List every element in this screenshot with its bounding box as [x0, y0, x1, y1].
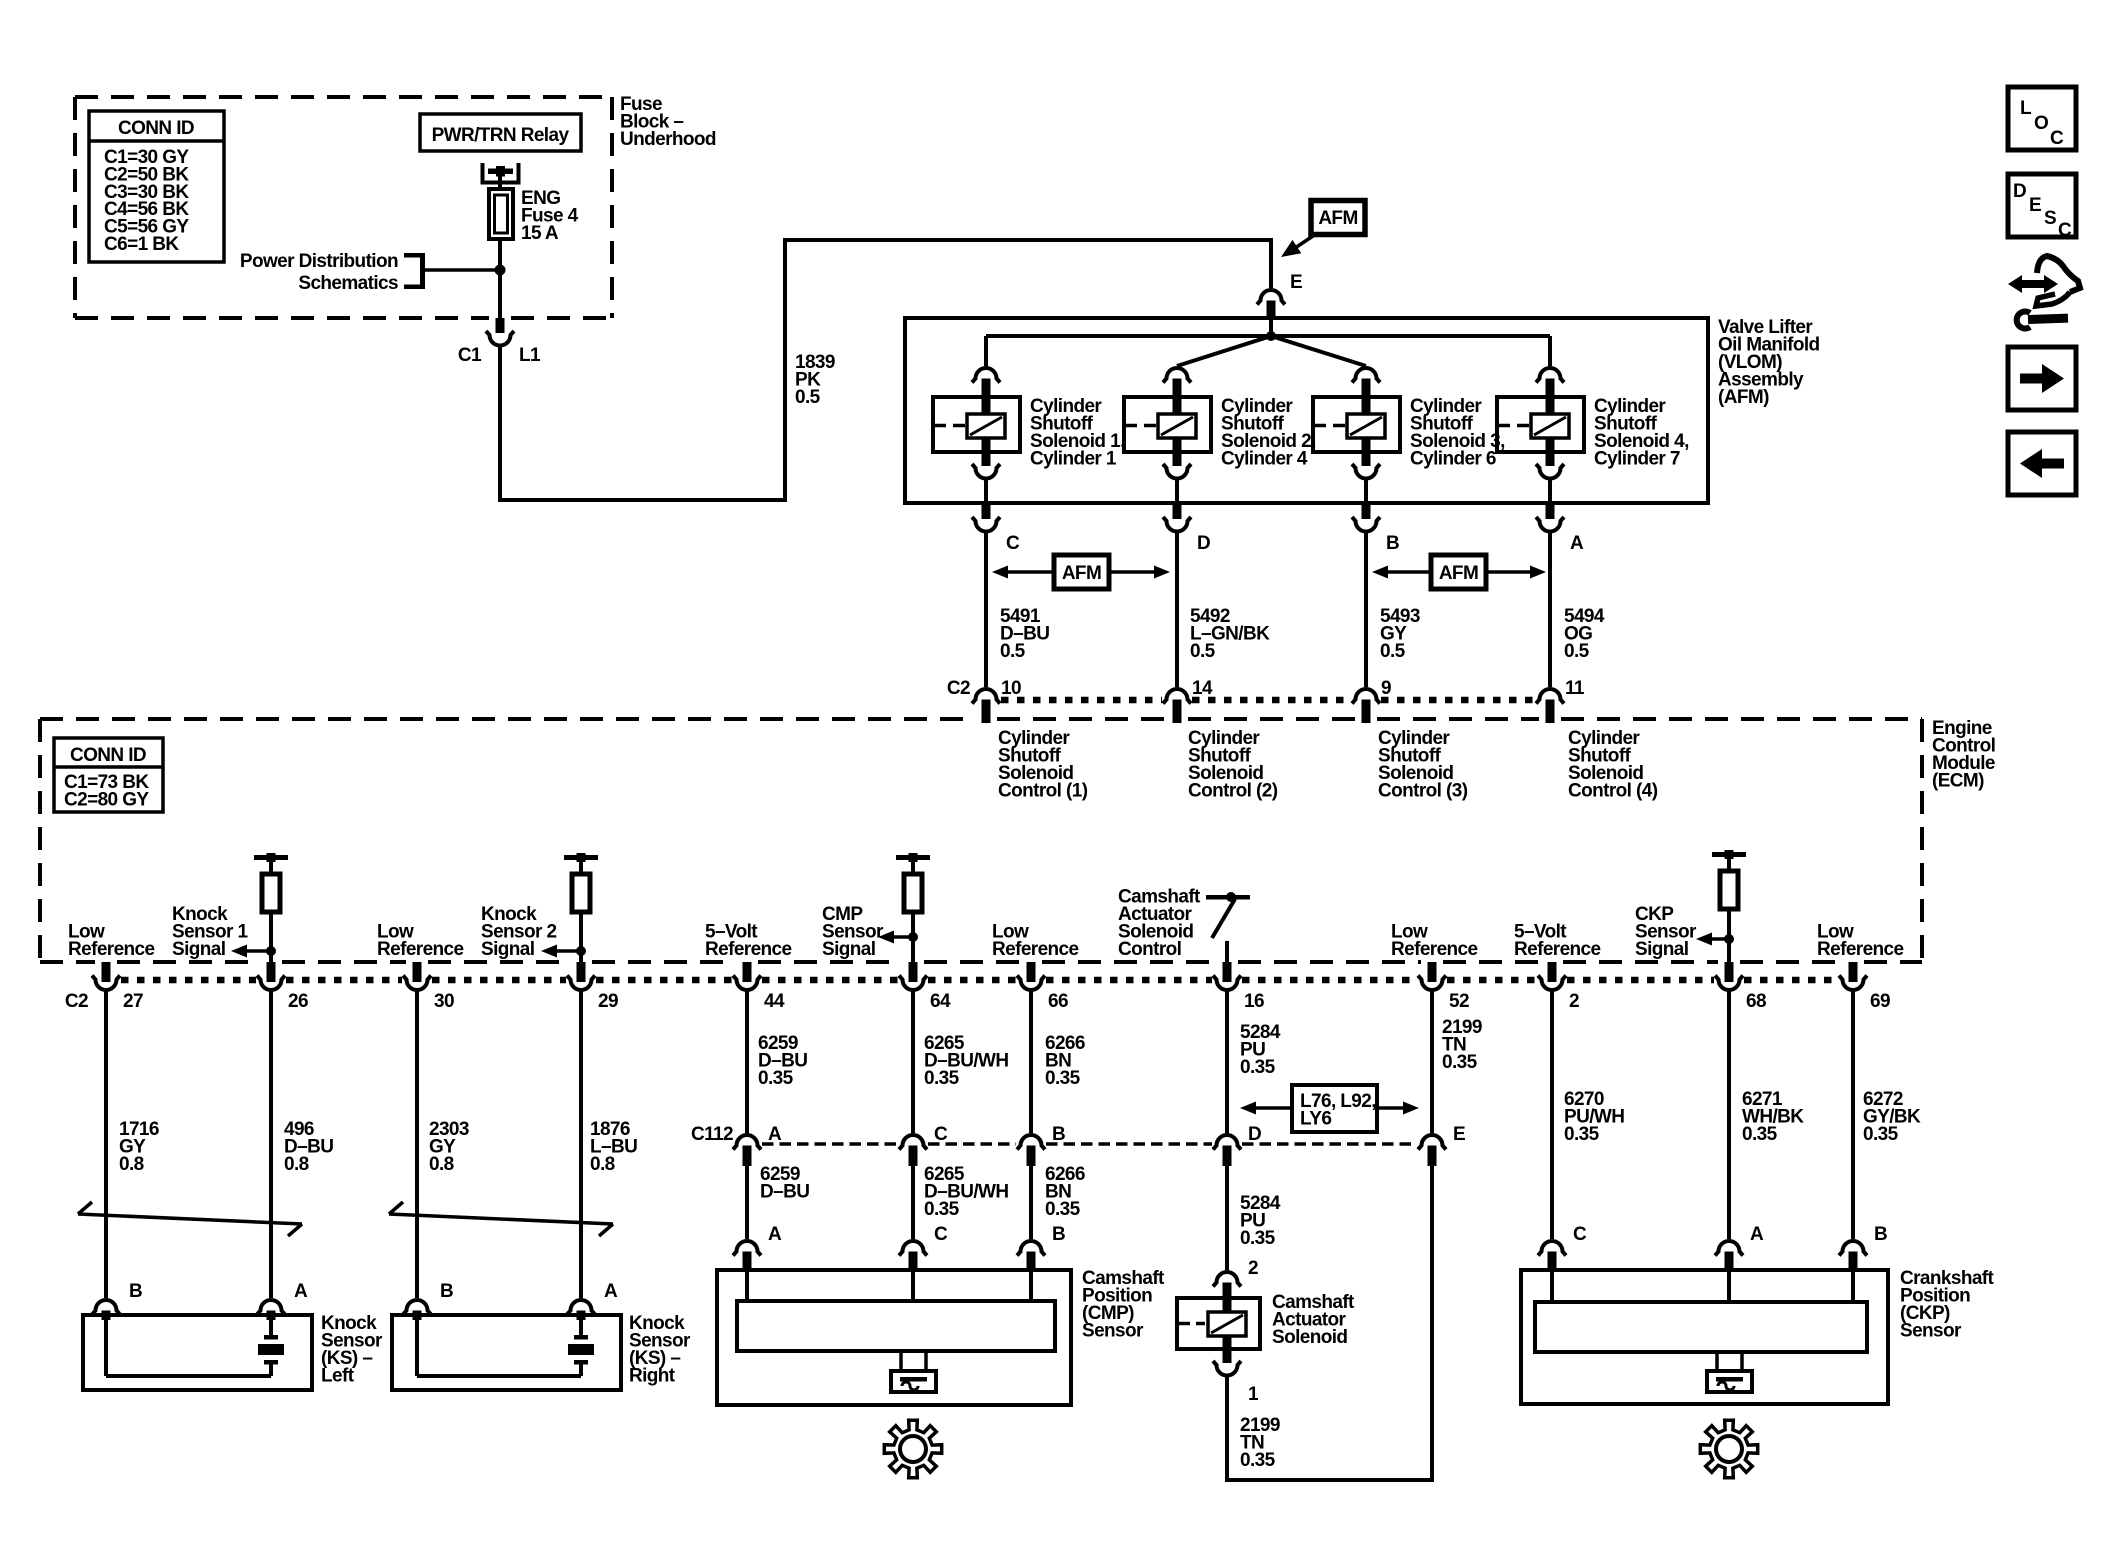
- solenoid 4 lower connector: [1536, 464, 1564, 501]
- gear symbol (crankshaft reluctor): [1700, 1420, 1757, 1477]
- wire label 5284 PU 0.35 (lower): [1240, 1193, 1281, 1249]
- resistor knock sensor 2 pull-up with signal arrow: [541, 853, 598, 963]
- wire junction down to C1: [498, 270, 502, 318]
- solenoid Cylinder Shutoff Solenoid 2, Cylinder 4: [1124, 396, 1316, 470]
- icon box DESC: [2008, 174, 2076, 241]
- svg-text:2: 2: [1248, 1258, 1258, 1279]
- connector pin 66 (ECM bottom): [1017, 962, 1068, 1012]
- svg-text:0.35: 0.35: [1863, 1124, 1899, 1145]
- svg-text:Underhood: Underhood: [620, 129, 716, 150]
- svg-text:Control (2): Control (2): [1188, 781, 1278, 802]
- svg-text:0.5: 0.5: [1564, 641, 1590, 662]
- connector pin 9 (ECM C2): [1352, 678, 1391, 723]
- wire label 1716 GY 0.8: [119, 1119, 159, 1175]
- svg-text:C: C: [2050, 128, 2064, 149]
- svg-text:66: 66: [1048, 991, 1068, 1012]
- wire label 6266 BN 0.35 (upper): [1045, 1033, 1085, 1089]
- svg-text:Cylinder 7: Cylinder 7: [1594, 449, 1680, 470]
- wire label 6259 D-BU 0.35 (upper): [758, 1033, 807, 1089]
- svg-text:11: 11: [1565, 678, 1585, 699]
- connector pin 64 (ECM bottom): [899, 962, 951, 1012]
- wire 1839 PK 0.5: [500, 240, 1271, 500]
- svg-text:30: 30: [434, 991, 454, 1012]
- wire from ECM pin 27: [104, 990, 108, 1298]
- ECM C2 connector dotted line: [1001, 697, 1535, 704]
- connector B (knock sensor right): [403, 1281, 453, 1320]
- svg-text:A: A: [768, 1124, 782, 1145]
- svg-text:26: 26: [288, 991, 308, 1012]
- connector B (CKP sensor): [1839, 1224, 1887, 1272]
- net label Low Reference (pin 66): [992, 922, 1079, 961]
- wire from ECM pin 68: [1727, 990, 1731, 1239]
- svg-text:16: 16: [1244, 991, 1264, 1012]
- solenoid top connector (solenoid 3): [1352, 368, 1380, 397]
- fuse ENG Fuse 4 15 A: [489, 188, 579, 244]
- connector C112 cavity A: [733, 1124, 782, 1166]
- connector D (VLOM harness): [1163, 505, 1210, 554]
- svg-text:0.35: 0.35: [1564, 1124, 1600, 1145]
- resistor CKP sensor pull-up with signal arrow: [1696, 850, 1746, 963]
- svg-text:0.8: 0.8: [284, 1154, 309, 1175]
- connector pin 29 (ECM bottom): [567, 962, 618, 1012]
- wire solenoid B to ECM: [1364, 533, 1368, 687]
- resistor knock sensor 1 pull-up with signal arrow: [231, 853, 288, 963]
- svg-text:PWR/TRN Relay: PWR/TRN Relay: [432, 125, 570, 146]
- label box AFM (left pair) with arrows: [992, 555, 1170, 589]
- connector pin 10 (ECM C2): [972, 678, 1021, 723]
- svg-text:52: 52: [1449, 991, 1469, 1012]
- solenoid Cylinder Shutoff Solenoid 3, Cylinder 6: [1313, 396, 1505, 470]
- label Engine Control Module (ECM): [1932, 718, 1995, 792]
- connector pin 2 (camshaft actuator solenoid): [1213, 1258, 1258, 1300]
- svg-text:B: B: [1874, 1224, 1887, 1245]
- svg-text:44: 44: [764, 991, 785, 1012]
- svg-text:A: A: [604, 1281, 618, 1302]
- connector A (knock sensor right): [567, 1281, 618, 1320]
- svg-text:CONN ID: CONN ID: [118, 118, 194, 139]
- wire label 6272 GY/BK 0.35: [1863, 1089, 1921, 1145]
- svg-text:Reference: Reference: [1817, 939, 1904, 960]
- svg-text:0.8: 0.8: [119, 1154, 144, 1175]
- label Knock Sensor (KS) - Right: [629, 1313, 691, 1387]
- svg-text:0.35: 0.35: [924, 1199, 960, 1220]
- svg-text:15 A: 15 A: [521, 223, 559, 244]
- svg-text:0.35: 0.35: [1045, 1199, 1081, 1220]
- connector A (VLOM harness): [1536, 505, 1584, 554]
- icon box arrow right: [2008, 347, 2076, 410]
- label Camshaft Position (CMP) Sensor: [1082, 1268, 1165, 1342]
- svg-text:Sensor: Sensor: [1900, 1321, 1962, 1342]
- resistor CMP sensor pull-up with signal arrow: [878, 853, 930, 963]
- svg-text:B: B: [1052, 1124, 1065, 1145]
- connector A (knock sensor left): [257, 1281, 308, 1320]
- ECM bottom connector dotted line: [121, 977, 1838, 984]
- svg-text:68: 68: [1746, 991, 1766, 1012]
- connector pin 69 (ECM bottom): [1839, 962, 1890, 1012]
- connector C112 cavity C: [899, 1124, 948, 1166]
- connector C2 label (ECM bottom): [65, 991, 88, 1012]
- wire relay to fuse: [498, 176, 502, 190]
- svg-text:B: B: [1386, 533, 1399, 554]
- svg-text:C6=1 BK: C6=1 BK: [104, 234, 179, 255]
- svg-text:0.35: 0.35: [1442, 1052, 1478, 1073]
- svg-text:A: A: [1750, 1224, 1764, 1245]
- svg-text:B: B: [129, 1281, 142, 1302]
- connector table CONN ID (ECM): [54, 738, 163, 812]
- svg-text:CONN ID: CONN ID: [70, 745, 146, 766]
- wire C112 E down to cam solenoid return: [1227, 1164, 1432, 1480]
- svg-text:0.5: 0.5: [1000, 641, 1026, 662]
- svg-text:Power Distribution: Power Distribution: [240, 251, 398, 272]
- svg-text:E: E: [1290, 272, 1302, 293]
- svg-text:14: 14: [1192, 678, 1213, 699]
- wire label 6265 D-BU/WH 0.35 (upper): [924, 1033, 1008, 1089]
- wire from ECM pin 16: [1225, 990, 1229, 1133]
- label box AFM (right pair) with arrows: [1372, 555, 1546, 589]
- wire label 6265 D-BU/WH 0.35 (lower): [924, 1164, 1008, 1220]
- wire C112 C down: [911, 1164, 915, 1239]
- connector pin 11 (ECM C2): [1536, 678, 1585, 723]
- svg-text:E: E: [2029, 195, 2041, 216]
- gear symbol (camshaft reluctor): [884, 1420, 941, 1477]
- wire label 5284 PU 0.35 (upper): [1240, 1022, 1281, 1078]
- solenoid 1 lower connector: [972, 464, 1000, 501]
- connector pin 1 (camshaft actuator solenoid): [1213, 1361, 1259, 1405]
- wire label 496 D-BU 0.8: [284, 1119, 333, 1175]
- wire solenoid D to ECM: [1175, 533, 1179, 687]
- connector C2 label (ECM harness, top): [947, 678, 970, 699]
- svg-text:0.5: 0.5: [1380, 641, 1406, 662]
- svg-text:Sensor: Sensor: [1082, 1321, 1144, 1342]
- svg-text:Cylinder 4: Cylinder 4: [1221, 449, 1308, 470]
- net label Low Reference (pin 52): [1391, 922, 1478, 961]
- svg-text:0.5: 0.5: [795, 387, 821, 408]
- svg-text:0.35: 0.35: [924, 1068, 960, 1089]
- Engine Control Module (ECM) dashed boundary: [40, 719, 1922, 962]
- svg-text:Right: Right: [629, 1366, 676, 1387]
- connector A (CKP sensor): [1715, 1224, 1764, 1272]
- svg-text:0.35: 0.35: [1045, 1068, 1081, 1089]
- svg-text:AFM: AFM: [1318, 208, 1357, 229]
- wire label 6266 BN 0.35 (lower): [1045, 1164, 1085, 1220]
- svg-text:69: 69: [1870, 991, 1890, 1012]
- net label Low Reference (pin 27): [68, 922, 155, 961]
- wire label 5494 OG 0.5: [1564, 606, 1605, 662]
- svg-text:L: L: [2020, 98, 2032, 119]
- wire label 2303 GY 0.8: [429, 1119, 469, 1175]
- connector C112 cavity D: [1213, 1124, 1261, 1166]
- wire C112 B down: [1029, 1164, 1033, 1239]
- junction dot power feed: [495, 265, 506, 276]
- svg-text:B: B: [1052, 1224, 1065, 1245]
- connector pin 52 (ECM bottom): [1418, 962, 1469, 1012]
- connector pin 16 (ECM bottom): [1213, 962, 1264, 1012]
- svg-text:Control (4): Control (4): [1568, 781, 1658, 802]
- wire label 2199 TN 0.35 (lower): [1240, 1415, 1280, 1471]
- connector pin 2 (ECM bottom): [1538, 962, 1579, 1012]
- svg-text:29: 29: [598, 991, 618, 1012]
- solenoid camshaft actuator: [1177, 1292, 1355, 1363]
- wire from ECM pin 44: [745, 990, 749, 1133]
- svg-text:0.35: 0.35: [1742, 1124, 1778, 1145]
- svg-text:1: 1: [1248, 1384, 1259, 1405]
- svg-text:AFM: AFM: [1062, 563, 1101, 584]
- svg-text:O: O: [2034, 113, 2048, 134]
- fuse block underhood dashed boundary: [75, 97, 612, 318]
- svg-text:0.35: 0.35: [1240, 1450, 1276, 1471]
- net label Low Reference (pin 69): [1817, 922, 1904, 961]
- svg-text:(AFM): (AFM): [1718, 387, 1769, 408]
- wire solenoid C to ECM: [984, 533, 988, 687]
- wire label 2199 TN 0.35 (upper): [1442, 1017, 1482, 1073]
- solenoid Cylinder Shutoff Solenoid 4, Cylinder 7: [1497, 396, 1689, 470]
- svg-text:Reference: Reference: [1514, 939, 1601, 960]
- camshaft position (CMP) sensor box: [717, 1270, 1071, 1405]
- net label CKP Sensor Signal: [1635, 904, 1697, 960]
- net label Cylinder Shutoff Solenoid Control (4): [1568, 728, 1658, 802]
- wire from ECM pin 2: [1550, 990, 1554, 1239]
- svg-text:27: 27: [123, 991, 143, 1012]
- net label 5-Volt Reference (pin 44): [705, 922, 792, 961]
- connector C112 cavity E: [1418, 1124, 1465, 1166]
- net label Knock Sensor 1 Signal: [172, 904, 248, 960]
- svg-text:Control (1): Control (1): [998, 781, 1088, 802]
- svg-text:B: B: [440, 1281, 453, 1302]
- Valve Lifter Oil Manifold (VLOM) assembly box: [905, 317, 1820, 503]
- wire VLOM internal bus: [986, 318, 1550, 366]
- svg-text:AFM: AFM: [1439, 563, 1478, 584]
- connector A (CMP sensor): [733, 1224, 782, 1272]
- wire C112 D down: [1225, 1164, 1229, 1270]
- connector C112 label: [691, 1124, 733, 1145]
- label Fuse Block - Underhood: [620, 94, 716, 150]
- wire from ECM pin 52: [1430, 990, 1434, 1133]
- wire from ECM pin 66: [1029, 990, 1033, 1133]
- svg-text:C1: C1: [458, 345, 482, 366]
- svg-text:Reference: Reference: [705, 939, 792, 960]
- connector pin 26 (ECM bottom): [257, 962, 308, 1012]
- svg-text:C: C: [2058, 220, 2072, 241]
- svg-text:A: A: [294, 1281, 308, 1302]
- svg-text:0.8: 0.8: [429, 1154, 454, 1175]
- svg-text:Control (3): Control (3): [1378, 781, 1468, 802]
- net label Cylinder Shutoff Solenoid Control (1): [998, 728, 1088, 802]
- svg-text:0.8: 0.8: [590, 1154, 615, 1175]
- connector pin 68 (ECM bottom): [1715, 962, 1766, 1012]
- solenoid 2 lower connector: [1163, 464, 1191, 501]
- svg-text:D: D: [2013, 181, 2026, 202]
- label Knock Sensor (KS) - Left: [321, 1313, 383, 1387]
- solenoid top connector (solenoid 2): [1163, 368, 1191, 397]
- connector C112 cavity B: [1017, 1124, 1065, 1166]
- wire label 5492 L–GN/BK 0.5: [1190, 606, 1270, 662]
- svg-text:Reference: Reference: [1391, 939, 1478, 960]
- svg-text:A: A: [1570, 533, 1584, 554]
- svg-text:Reference: Reference: [992, 939, 1079, 960]
- svg-text:Signal: Signal: [1635, 939, 1688, 960]
- connector pin 30 (ECM bottom): [403, 962, 454, 1012]
- wire C112 A down: [745, 1164, 749, 1239]
- svg-text:C2=80 GY: C2=80 GY: [64, 789, 149, 810]
- svg-text:Schematics: Schematics: [298, 273, 398, 294]
- wire label 5491 D–BU 0.5: [1000, 606, 1049, 662]
- connector C (VLOM harness): [972, 505, 1020, 554]
- wire from ECM pin 29: [579, 990, 583, 1298]
- svg-text:C: C: [1573, 1224, 1587, 1245]
- wire fuse to junction: [498, 239, 502, 270]
- net label Low Reference (pin 30): [377, 922, 464, 961]
- svg-text:C: C: [1006, 533, 1020, 554]
- connector B (CMP sensor): [1017, 1224, 1065, 1272]
- svg-text:C2: C2: [947, 678, 970, 699]
- relay contact terminal: [483, 163, 519, 183]
- svg-text:D: D: [1197, 533, 1210, 554]
- svg-text:C: C: [934, 1124, 948, 1145]
- svg-text:0.5: 0.5: [1190, 641, 1216, 662]
- connector C1 / L1: [458, 318, 541, 366]
- connector pin 14 (ECM C2): [1163, 678, 1213, 723]
- svg-text:Reference: Reference: [377, 939, 464, 960]
- icon box LOC: [2008, 87, 2076, 150]
- knock sensor (KS) Left box: [83, 1315, 312, 1390]
- relay PWR/TRN Relay: [420, 114, 581, 151]
- svg-text:D–BU: D–BU: [760, 1182, 809, 1203]
- switch camshaft actuator solenoid driver: [1206, 892, 1250, 963]
- wire solenoid A to ECM: [1548, 533, 1552, 687]
- wire from ECM pin 69: [1851, 990, 1855, 1239]
- svg-text:C112: C112: [691, 1124, 733, 1145]
- solenoid top connector (solenoid 1): [972, 368, 1000, 397]
- svg-text:C: C: [934, 1224, 948, 1245]
- net label Cylinder Shutoff Solenoid Control (2): [1188, 728, 1278, 802]
- net label 5-Volt Reference (pin 2): [1514, 922, 1601, 961]
- svg-text:L1: L1: [519, 345, 541, 366]
- twisted pair marker (right knock sensor): [389, 1202, 613, 1236]
- svg-text:2: 2: [1569, 991, 1579, 1012]
- solenoid 3 lower connector: [1352, 464, 1380, 501]
- knock sensor (KS) Right box: [392, 1315, 621, 1390]
- power distribution schematics reference bracket: [240, 251, 500, 294]
- svg-text:0.35: 0.35: [758, 1068, 794, 1089]
- net label Cylinder Shutoff Solenoid Control (3): [1378, 728, 1468, 802]
- svg-text:Signal: Signal: [172, 939, 225, 960]
- svg-text:Signal: Signal: [481, 939, 534, 960]
- svg-text:Solenoid: Solenoid: [1272, 1327, 1347, 1348]
- connector B (VLOM harness): [1352, 505, 1399, 554]
- svg-text:0.35: 0.35: [1240, 1228, 1276, 1249]
- connector pin 27 (ECM bottom): [92, 962, 143, 1012]
- net label Knock Sensor 2 Signal: [481, 904, 556, 960]
- svg-text:Control: Control: [1118, 939, 1181, 960]
- solenoid Cylinder Shutoff Solenoid 1, Cylinder 1: [933, 396, 1125, 470]
- connector table CONN ID (fuse block): [89, 111, 224, 262]
- label box L76, L92, LY6 with arrows: [1240, 1085, 1419, 1132]
- C112 in-line connector dashed line: [762, 1142, 1417, 1146]
- wire label 6270 PU/WH 0.35: [1564, 1089, 1624, 1145]
- svg-text:LY6: LY6: [1300, 1109, 1331, 1130]
- svg-text:C2: C2: [65, 991, 88, 1012]
- icon box arrow left: [2008, 432, 2076, 495]
- wire from ECM pin 30: [415, 990, 419, 1298]
- wire label 5493 GY 0.5: [1380, 606, 1420, 662]
- twisted pair marker (left knock sensor): [78, 1202, 302, 1236]
- net label CMP Sensor Signal: [822, 904, 884, 960]
- connector pin 44 (ECM bottom): [733, 962, 785, 1012]
- label box AFM (top) with arrow: [1281, 201, 1365, 258]
- wire label 6259 D-BU (lower): [760, 1164, 809, 1203]
- connector E (VLOM): [1257, 272, 1302, 318]
- label Crankshaft Position (CKP) Sensor: [1900, 1268, 1995, 1342]
- svg-text:(ECM): (ECM): [1932, 771, 1984, 792]
- svg-text:D: D: [1248, 1124, 1261, 1145]
- icon wire repair (arrow and wrench): [2008, 256, 2080, 329]
- svg-text:9: 9: [1381, 678, 1391, 699]
- svg-text:0.35: 0.35: [1240, 1057, 1276, 1078]
- crankshaft position (CKP) sensor box: [1521, 1270, 1888, 1404]
- wire label 1876 L-BU 0.8: [590, 1119, 637, 1175]
- connector B (knock sensor left): [92, 1281, 142, 1320]
- connector C (CKP sensor): [1538, 1224, 1587, 1272]
- wire from ECM pin 64: [911, 990, 915, 1133]
- svg-text:Cylinder 6: Cylinder 6: [1410, 449, 1496, 470]
- svg-text:Reference: Reference: [68, 939, 155, 960]
- svg-text:Cylinder 1: Cylinder 1: [1030, 449, 1117, 470]
- net label Camshaft Actuator Solenoid Control: [1118, 887, 1201, 961]
- svg-text:E: E: [1453, 1124, 1465, 1145]
- svg-text:Left: Left: [321, 1366, 355, 1387]
- wire label 6271 WH/BK 0.35: [1742, 1089, 1804, 1145]
- svg-text:10: 10: [1001, 678, 1021, 699]
- connector C (CMP sensor): [899, 1224, 948, 1272]
- svg-text:64: 64: [930, 991, 951, 1012]
- svg-text:Signal: Signal: [822, 939, 875, 960]
- svg-text:A: A: [768, 1224, 782, 1245]
- svg-text:S: S: [2044, 208, 2056, 229]
- wire from ECM pin 26: [269, 990, 273, 1298]
- solenoid top connector (solenoid 4): [1536, 368, 1564, 397]
